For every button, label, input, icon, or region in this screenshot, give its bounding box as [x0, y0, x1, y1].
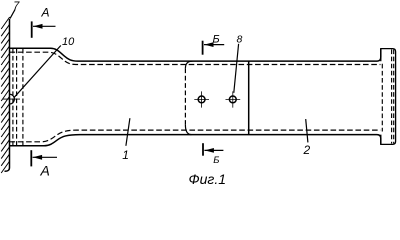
svg-text:1: 1 — [122, 148, 129, 162]
section marker A bottom: arrowhead — [33, 155, 42, 160]
sleeve top-left rounded corner — [185, 61, 192, 68]
section marker A top: arrowhead — [33, 24, 42, 29]
section marker A bottom: bar — [30, 150, 32, 166]
hidden line top (dashed) — [10, 52, 381, 64]
flange hidden bolt line 1 (dashed) — [391, 50, 393, 144]
sleeve left hidden edge (dashed) — [184, 68, 186, 125]
hidden line bottom (dashed) — [10, 130, 381, 142]
section marker B top: arrow line — [204, 44, 224, 46]
section marker A top: bar — [31, 21, 33, 37]
section marker A top: arrow line — [33, 25, 56, 27]
svg-text:2: 2 — [303, 143, 311, 157]
hidden vertical edge near wall 2 — [16, 49, 18, 146]
section marker B top: bar — [202, 41, 204, 55]
section marker B bottom: bar — [202, 143, 204, 156]
flange outline — [381, 49, 396, 145]
sleeve right edge — [248, 61, 250, 135]
wall — [5, 19, 10, 171]
svg-text:10: 10 — [62, 36, 75, 48]
svg-text:Б: Б — [213, 34, 220, 46]
hidden vertical edge near wall 3 — [22, 49, 24, 146]
bolt hole right crosshair — [226, 91, 241, 107]
section marker A bottom: arrow line — [33, 156, 57, 158]
section marker B bottom: arrow line — [204, 149, 223, 151]
svg-text:А: А — [40, 163, 50, 179]
hidden vertical edge near wall 1 — [12, 49, 14, 146]
bolt hole right — [229, 96, 236, 103]
bolt hole left — [198, 96, 205, 103]
section marker B top: arrowhead — [204, 42, 213, 47]
svg-text:7: 7 — [13, 0, 20, 12]
leader for label 10 — [14, 46, 61, 98]
leader for label 8 — [234, 44, 239, 93]
hinge pin centerline — [3, 98, 20, 100]
beam bottom edge — [10, 135, 381, 146]
tick for label 2 — [306, 119, 308, 142]
svg-text:8: 8 — [237, 34, 243, 46]
tick for label 1 — [126, 118, 130, 146]
section marker B bottom: arrowhead — [205, 148, 214, 153]
hinge pin 10: semicircle on wall — [10, 94, 15, 104]
svg-text:А: А — [41, 6, 50, 20]
wall hatching — [1, 17, 10, 173]
bolt hole left crosshair — [194, 91, 209, 107]
svg-text:Б: Б — [213, 155, 219, 166]
flange hidden left edge (dashed) — [381, 64, 383, 132]
sleeve bottom-left rounded corner — [185, 125, 191, 135]
leader for label 7 — [10, 9, 15, 18]
svg-text:Фиг.1: Фиг.1 — [189, 171, 227, 187]
beam top edge — [10, 48, 381, 61]
flange hidden bolt line 2 (dashed) — [393, 50, 395, 144]
